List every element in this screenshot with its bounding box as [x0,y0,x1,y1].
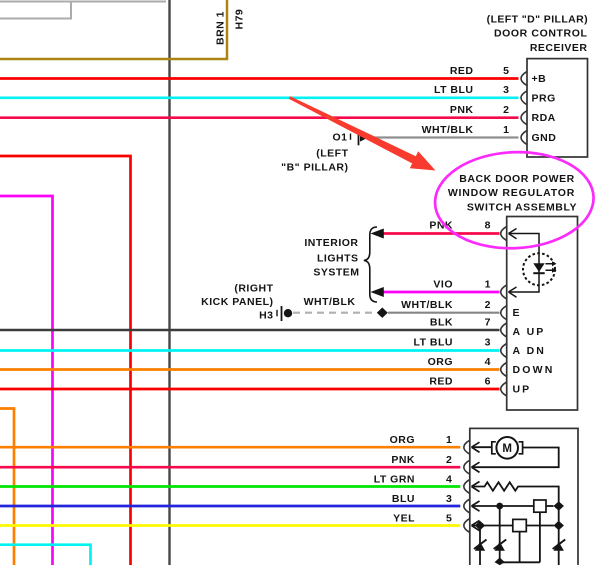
svg-text:BLU: BLU [392,493,415,505]
svg-text:BLK: BLK [430,316,453,328]
svg-text:2: 2 [503,104,509,116]
svg-text:RDA: RDA [532,112,556,124]
svg-text:1: 1 [446,434,452,446]
svg-text:DOWN: DOWN [513,364,555,376]
svg-text:2: 2 [485,299,491,311]
svg-text:7: 7 [485,316,491,328]
svg-text:4: 4 [485,356,491,368]
pin brackets M1 [464,440,470,532]
svg-text:LT GRN: LT GRN [374,473,415,485]
pin arrows M1 [472,442,480,531]
wire RED to pin 6 [0,388,500,391]
svg-text:ORG: ORG [428,356,453,368]
svg-text:ORG: ORG [390,434,415,446]
LED illumination symbol [523,253,555,285]
wire PNK to switch pin 8 [382,232,500,235]
wire BLK to pin 7 [0,329,500,332]
svg-text:LIGHTS: LIGHTS [317,253,359,265]
svg-text:5: 5 [503,65,509,77]
svg-text:SYSTEM: SYSTEM [313,267,359,279]
wire LT GRN to motor pin 4 [0,485,460,488]
pin3 row network [472,505,534,507]
wire WHT/BLK from O1 to GND pin 1 [362,136,519,138]
svg-text:2: 2 [446,454,452,466]
svg-text:INTERIOR: INTERIOR [304,237,358,249]
svg-text:O1: O1 [332,132,347,144]
svg-text:1: 1 [503,124,509,136]
box M1 window motor assembly [470,428,578,565]
svg-text:4: 4 [446,473,452,485]
wire YEL to motor pin 5 [0,524,460,527]
wire WHT/BLK solid to pin 2 [388,312,500,314]
internal lamp wiring pin8 to pin1 [509,229,540,298]
wire PNK to motor pin 2 [0,466,460,469]
svg-text:M: M [502,443,512,455]
junction diamond on WHT/BLK [377,308,388,318]
svg-text:SWITCH ASSEMBLY: SWITCH ASSEMBLY [467,202,577,214]
svg-text:"B" PILLAR): "B" PILLAR) [281,162,348,174]
svg-text:BRN 1: BRN 1 [215,11,227,45]
svg-text:+B: +B [532,73,547,85]
svg-text:KICK PANEL): KICK PANEL) [201,296,273,308]
pin brackets S1 [501,227,507,397]
svg-text:DOOR CONTROL: DOOR CONTROL [494,28,588,40]
svg-text:WHT/BLK: WHT/BLK [304,296,356,308]
wire VIO (magenta) elbow down [0,196,53,565]
box S1 back door power window regulator switch assembly [507,217,578,411]
svg-text:H79: H79 [234,9,246,30]
svg-text:6: 6 [485,375,491,387]
svg-text:PRG: PRG [532,93,556,105]
vertical drops [480,506,559,565]
svg-text:RED: RED [450,65,474,77]
wire BLU to motor pin 3 [0,505,460,508]
arrow on PNK wire [371,229,384,239]
wire RED to +B pin 5 [0,77,519,80]
wire BRN H79 [0,0,227,59]
svg-text:RED: RED [429,375,453,387]
wire ORG elbow down [0,409,14,565]
svg-text:8: 8 [485,219,491,231]
svg-text:WINDOW REGULATOR: WINDOW REGULATOR [448,187,575,199]
wire LT BLU to PRG pin 3 [0,96,519,99]
svg-text:(RIGHT: (RIGHT [234,283,273,295]
svg-text:WHT/BLK: WHT/BLK [401,299,453,311]
svg-text:BACK DOOR POWER: BACK DOOR POWER [459,173,575,185]
pin brackets U1 [521,72,527,145]
svg-text:(LEFT: (LEFT [316,148,348,160]
gray partial box top-left [0,1,166,3]
svg-text:GND: GND [532,132,557,144]
svg-text:(LEFT "D" PILLAR): (LEFT "D" PILLAR) [487,14,588,26]
wire LT BLU to pin 3 [0,349,500,352]
motor M [472,446,492,448]
pin5 row network [472,525,513,527]
callout ellipse [433,149,596,252]
svg-text:LT BLU: LT BLU [413,337,453,349]
svg-text:1: 1 [485,278,491,290]
svg-text:UP: UP [513,384,532,396]
wire PNK to RDA pin 2 [0,116,519,119]
zener diodes [474,540,565,551]
svg-text:PNK: PNK [450,104,474,116]
wire LT BLU elbow down bottom left [0,545,91,565]
svg-text:WHT/BLK: WHT/BLK [422,124,474,136]
svg-text:A UP: A UP [513,326,546,338]
red callout arrow [289,96,436,170]
wire ORG to motor pin 1 [0,446,460,449]
box U1 door control receiver [527,59,588,157]
svg-text:E: E [513,307,521,319]
svg-text:H3: H3 [259,310,273,322]
wire motor to pin2 [472,448,559,468]
svg-text:VIO: VIO [433,278,453,290]
svg-text:A DN: A DN [513,345,546,357]
connector O1 [351,130,369,145]
svg-text:3: 3 [446,493,452,505]
dark vertical harness line [168,0,170,565]
wire VIO to switch pin 1 [382,291,500,294]
svg-text:PNK: PNK [391,454,415,466]
svg-text:YEL: YEL [393,512,415,524]
svg-text:RECEIVER: RECEIVER [530,42,588,54]
svg-text:3: 3 [485,337,491,349]
wire WHT/BLK dashed from H3 [293,312,377,314]
connector H3 [277,306,292,321]
svg-text:LT BLU: LT BLU [434,84,474,96]
wire RED elbow down [0,156,131,565]
svg-text:5: 5 [446,512,452,524]
resistor zigzag on pin4 row [472,482,559,506]
svg-text:3: 3 [503,84,509,96]
curly brace [364,227,377,302]
wire ORG to pin 4 [0,368,500,371]
arrow on VIO wire [371,287,384,297]
